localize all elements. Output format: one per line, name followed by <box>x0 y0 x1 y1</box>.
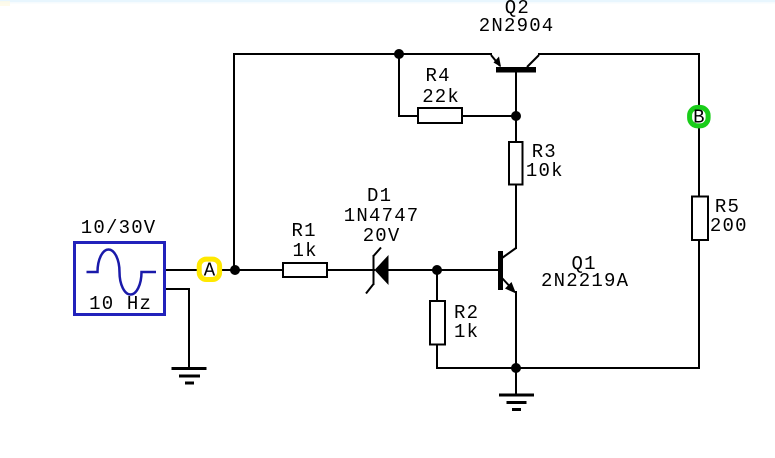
resistor R3 <box>509 141 563 185</box>
wire bottom horizontal <box>436 367 700 369</box>
wire R4 riser <box>398 53 400 117</box>
junction dot R2 top <box>432 265 442 275</box>
wire D1 to Q1 base <box>388 269 498 271</box>
svg-text:10k: 10k <box>526 160 563 182</box>
svg-text:2N2904: 2N2904 <box>479 15 553 37</box>
wire R1 to D1 <box>327 269 375 271</box>
svg-text:R1: R1 <box>292 220 316 242</box>
svg-text:10 Hz: 10 Hz <box>89 293 151 315</box>
wire left riser <box>233 53 235 271</box>
wire top horizontal left (V+ rail) <box>233 53 492 55</box>
transistor Q2 <box>479 0 553 73</box>
svg-text:1k: 1k <box>293 240 317 262</box>
wire source ground lead <box>165 289 189 368</box>
wire right riser upper <box>698 53 700 197</box>
wire node A horizontal <box>165 269 283 271</box>
svg-text:1N4747: 1N4747 <box>344 205 418 227</box>
wire R4 left lead <box>398 115 418 117</box>
wire top horizontal right <box>538 53 700 55</box>
svg-text:22k: 22k <box>422 86 459 108</box>
svg-text:10/30V: 10/30V <box>81 217 156 239</box>
svg-text:1k: 1k <box>454 321 478 343</box>
resistor R1 <box>283 220 327 277</box>
wire Q2 base drop <box>515 70 517 117</box>
resistor R2 <box>430 301 478 345</box>
ground (source) <box>172 369 207 384</box>
svg-text:B: B <box>693 107 704 129</box>
junction dot at node A <box>230 265 240 275</box>
svg-text:200: 200 <box>710 215 747 237</box>
zener diode D1 <box>344 185 418 294</box>
wire R2 top lead <box>436 269 438 301</box>
transistor Q1 <box>498 248 629 294</box>
window edge artifact <box>0 0 775 6</box>
junction dot emitter ground <box>511 363 521 373</box>
node B <box>690 107 709 129</box>
node A <box>199 259 219 282</box>
junction dot R4 top <box>394 49 404 59</box>
wire R3 top lead <box>515 115 517 142</box>
wire right riser lower <box>698 240 700 369</box>
wire R4 right lead <box>462 115 517 117</box>
svg-text:A: A <box>204 260 216 282</box>
resistor R4 <box>418 65 462 123</box>
junction dot R4 right / Q2 base <box>511 111 521 121</box>
resistor R5 <box>692 196 747 240</box>
ground (emitter) <box>499 395 534 410</box>
wire R2 bottom lead <box>436 344 438 369</box>
voltage source V1 box <box>75 243 165 315</box>
svg-text:R4: R4 <box>426 65 450 87</box>
wire Q1 emitter drop <box>515 291 517 369</box>
svg-text:20V: 20V <box>363 225 400 247</box>
wire Q1 ground drop <box>515 368 517 394</box>
svg-text:D1: D1 <box>367 185 391 207</box>
wire R3 bottom lead to Q1 collector <box>515 184 517 249</box>
